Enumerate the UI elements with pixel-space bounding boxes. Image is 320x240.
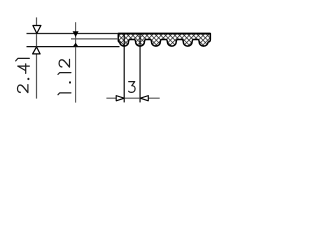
2.41 bottom arrow (open, pointing up): [33, 47, 41, 54]
3 dim right arrow (open, pointing left): [140, 96, 148, 101]
digit 1: [58, 73, 71, 75]
extension line: tooth root, for 1.12 dim: [71, 38, 118, 40]
2.41 top arrow (open, pointing down): [33, 26, 41, 34]
belt cross-section (GT 3M timing belt profile, cross-hatched): [118, 34, 210, 47]
1.12 bottom arrow (solid, pointing up): [73, 43, 79, 47]
extension line: teeth bottom, for 2.41 dim: [27, 46, 120, 48]
digit 1: [16, 58, 30, 61]
extension line: tooth-gap center (left), for 3 dim: [123, 34, 125, 103]
dimension line 3 (horizontal, y=98.2, arrows outside): [106, 97, 159, 99]
label 3 (CAD stick digit): [129, 82, 136, 93]
digit 4: [18, 64, 30, 73]
label 1.12 (rotated CAD stick digits): [58, 59, 71, 94]
digit 1: [58, 93, 71, 95]
1.12 top arrow (solid, pointing down): [73, 31, 79, 37]
dimension line 1.12 (vertical, x=75.6): [75, 22, 77, 102]
belt top edge (bold outline): [118, 33, 210, 35]
extension line: tooth-gap center (right), for 3 dim: [139, 34, 141, 103]
digit 2: [59, 59, 69, 67]
dimension line 2.41 (vertical, x=36.5): [36, 17, 38, 98]
3 dim left arrow (open, pointing right): [116, 96, 124, 101]
extension line: belt top edge, for 2.41 dim: [27, 33, 119, 35]
label 2.41 (rotated CAD stick digits): [16, 58, 30, 92]
digit 2: [18, 85, 28, 93]
decimal point: [27, 78, 29, 80]
decimal point: [69, 81, 71, 83]
